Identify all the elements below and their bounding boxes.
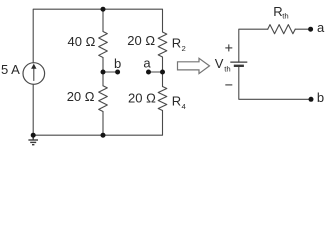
wire right branch mid — [162, 57, 164, 87]
wire middle branch top — [102, 9, 104, 31]
node top junction — [101, 7, 106, 12]
current source I1 circle — [23, 63, 45, 85]
svg-text:V: V — [215, 56, 224, 71]
wire thevenin top — [239, 29, 268, 62]
wire stub node a — [149, 71, 163, 73]
node mid junction right — [160, 70, 165, 75]
svg-text:40 Ω: 40 Ω — [68, 34, 96, 49]
svg-text:th: th — [224, 65, 230, 74]
resistor 20 ohm middle bottom — [99, 86, 108, 112]
plus sign — [225, 44, 232, 51]
resistor Rth — [268, 25, 295, 34]
resistor 40 ohm — [99, 32, 108, 58]
resistor R4 — [158, 87, 167, 111]
svg-text:5 A: 5 A — [1, 62, 20, 77]
wire top left circuit — [33, 9, 162, 63]
wire stub node b — [103, 71, 118, 73]
svg-text:R: R — [172, 36, 181, 51]
svg-text:th: th — [282, 11, 288, 20]
battery Vth top plate — [230, 61, 247, 63]
node mid junction left — [101, 70, 106, 75]
svg-text:20 Ω: 20 Ω — [128, 91, 156, 106]
node ground junction — [31, 133, 36, 138]
svg-text:R: R — [273, 4, 282, 19]
arrow implication — [178, 58, 210, 73]
battery Vth bottom plate — [234, 65, 244, 67]
minus sign — [225, 84, 232, 86]
current source arrowhead — [31, 64, 36, 69]
wire middle branch mid — [102, 58, 104, 86]
terminal a left — [146, 70, 151, 75]
svg-text:b: b — [114, 56, 121, 71]
svg-text:20 Ω: 20 Ω — [67, 89, 95, 104]
wire to terminal a — [295, 28, 310, 30]
terminal a right — [308, 27, 313, 32]
svg-text:b: b — [317, 90, 324, 105]
terminal b right — [309, 97, 314, 102]
terminal b left — [115, 70, 120, 75]
wire bottom left circuit — [33, 84, 162, 135]
wire middle branch bottom — [102, 112, 104, 136]
node bottom junction — [101, 133, 106, 138]
wire thevenin bottom — [239, 66, 311, 99]
svg-text:a: a — [143, 56, 151, 71]
svg-text:4: 4 — [182, 102, 187, 111]
svg-text:a: a — [317, 20, 325, 35]
svg-text:2: 2 — [182, 44, 186, 53]
current source arrow — [33, 68, 35, 81]
ground — [28, 135, 38, 145]
resistor R2 — [158, 32, 167, 57]
svg-text:R: R — [172, 94, 181, 109]
svg-text:20 Ω: 20 Ω — [127, 33, 155, 48]
